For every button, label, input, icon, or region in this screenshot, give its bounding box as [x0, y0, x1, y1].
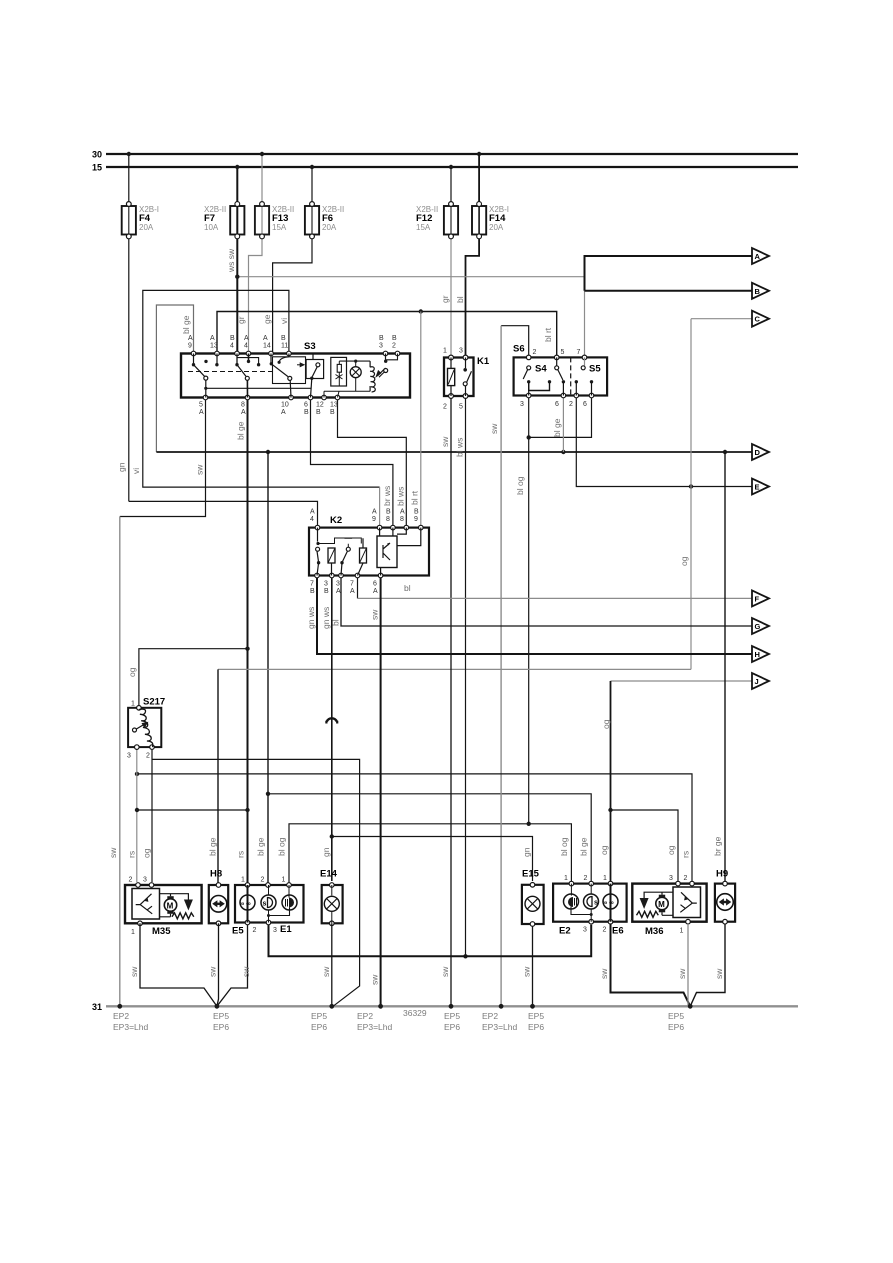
- wire S3-13B to K2-A8: [338, 398, 407, 528]
- svg-text:K2: K2: [330, 515, 342, 526]
- svg-text:2: 2: [569, 401, 573, 408]
- svg-text:31: 31: [92, 1002, 102, 1012]
- svg-text:6: 6: [555, 401, 559, 408]
- junction bl rt / K2-B9: [419, 309, 423, 313]
- wire M35-1 sw to ground funnel: [140, 923, 217, 1006]
- svg-text:2: 2: [443, 404, 447, 411]
- svg-text:rs: rs: [236, 851, 246, 858]
- svg-text:B: B: [414, 509, 419, 516]
- svg-text:A: A: [373, 588, 378, 595]
- svg-text:EP5: EP5: [444, 1011, 460, 1021]
- E2 pin 2: [589, 881, 594, 886]
- svg-text:S4: S4: [535, 364, 547, 375]
- wire gn F4 to K2-A4: [129, 501, 318, 527]
- S3 switch unit 3: [270, 354, 292, 398]
- E6 pin 1: [608, 881, 613, 886]
- arrow connector A: [752, 248, 769, 264]
- svg-text:E1: E1: [280, 924, 292, 935]
- svg-text:E14: E14: [320, 869, 338, 880]
- S3 switch unit 3 sub-box: [273, 357, 306, 384]
- arrow connector E: [752, 479, 769, 495]
- fuse F14: [466, 152, 510, 358]
- svg-text:5: 5: [561, 349, 565, 356]
- junction bus31 E15: [530, 1004, 535, 1009]
- svg-text:15: 15: [92, 163, 102, 173]
- wire S4 pin6 bl ge to D line (gray): [562, 396, 564, 453]
- K2 coil 2: [360, 548, 367, 563]
- wire bl ge branch to E2 pin2: [268, 794, 591, 881]
- svg-text:A: A: [188, 335, 193, 342]
- svg-text:sw: sw: [208, 966, 218, 977]
- wire bl rt drop to K2-B9 (gray): [420, 312, 422, 528]
- svg-text:G: G: [755, 622, 761, 631]
- svg-text:30: 30: [92, 150, 102, 160]
- S4 switch 2: [556, 357, 558, 365]
- svg-text:EP5: EP5: [528, 1011, 544, 1021]
- H8 pin top: [216, 883, 221, 888]
- svg-text:bl: bl: [331, 619, 341, 626]
- wire H9 sw to ground funnel: [690, 924, 725, 1006]
- arrow connector D: [752, 444, 769, 460]
- svg-text:bl og: bl og: [277, 837, 287, 856]
- svg-text:gr: gr: [236, 316, 246, 324]
- K2 pin B3: [330, 573, 335, 578]
- wire bl og column from S4-3/S5-6: [528, 398, 530, 824]
- svg-text:B: B: [755, 287, 761, 296]
- svg-text:bl ws: bl ws: [396, 487, 406, 506]
- S3 coupling arrow to hazard unit: [297, 364, 300, 366]
- component M36 wiper motor right: [632, 875, 706, 937]
- svg-text:K1: K1: [477, 356, 490, 367]
- component H8 washer pump: [209, 869, 228, 926]
- svg-text:sw: sw: [440, 436, 450, 447]
- S6 pin 2: [526, 355, 531, 360]
- svg-text:gr: gr: [440, 295, 450, 303]
- wire K2-B7 gn ws to arrow H: [317, 576, 753, 655]
- wire rs S217 pin3 to M35 pin2 (gray): [136, 749, 138, 883]
- svg-text:sw: sw: [599, 968, 609, 979]
- svg-text:B: B: [304, 409, 309, 416]
- wire og column C / E / H8 (gray): [690, 319, 692, 670]
- svg-text:rs: rs: [681, 851, 691, 858]
- svg-text:og: og: [601, 719, 611, 729]
- wire ws sw F7 to S5 pin7 (gray): [237, 276, 584, 278]
- node 31 label: [92, 1002, 102, 1012]
- svg-text:15A: 15A: [416, 223, 431, 232]
- svg-text:og: og: [599, 845, 609, 855]
- arrow connector J: [752, 673, 769, 689]
- S3 pin 5A: [203, 395, 208, 400]
- svg-text:sw: sw: [489, 423, 499, 434]
- S3 pin B4: [235, 351, 240, 356]
- svg-text:9: 9: [188, 343, 192, 350]
- K1 pin 3: [463, 355, 468, 360]
- svg-text:B: B: [230, 335, 235, 342]
- svg-text:bl rt: bl rt: [410, 490, 420, 505]
- wire K2-B3 gn to E14: [331, 576, 333, 882]
- ground EP5/EP6 label right: [668, 1011, 684, 1032]
- M36 electronic module with transistor: [673, 887, 701, 918]
- M36 heater resistor: [637, 911, 659, 917]
- svg-text:og: og: [666, 845, 676, 855]
- svg-text:A: A: [310, 509, 315, 516]
- S3 hazard sub-box: [306, 354, 324, 398]
- junction gn / E15 branch: [330, 834, 334, 838]
- arrow connector G: [752, 618, 769, 634]
- E6 lamp glyph: [603, 894, 618, 909]
- M36 pin 1: [686, 919, 691, 924]
- svg-text:ws sw: ws sw: [226, 248, 236, 273]
- ground EP2/EP3 label mid: [357, 1011, 392, 1032]
- ground EP5/EP6 label K1: [444, 1011, 460, 1032]
- svg-text:A: A: [281, 409, 286, 416]
- svg-text:S3: S3: [304, 341, 316, 352]
- junction bl og S4-3/S5-6: [527, 435, 531, 439]
- junction ws sw at F7: [235, 275, 239, 279]
- svg-text:EP3=Lhd: EP3=Lhd: [357, 1022, 392, 1032]
- svg-text:A: A: [755, 252, 761, 261]
- M36 feed wires: [644, 892, 673, 915]
- component H9 washer pump right: [715, 869, 735, 925]
- svg-text:∞ ∞: ∞ ∞: [603, 900, 614, 907]
- svg-text:bl og: bl og: [559, 837, 569, 856]
- K1 pin 1: [449, 355, 454, 360]
- svg-text:8: 8: [386, 516, 390, 523]
- E6 pin 2 bottom: [608, 919, 613, 924]
- wire bl ge loop S3-A9 to arrow D: [156, 305, 193, 452]
- svg-text:3: 3: [127, 753, 131, 760]
- wire S6 pin2 ground sw to bus31 (gray): [501, 326, 529, 358]
- svg-text:EP5: EP5: [311, 1011, 327, 1021]
- E2 lamp glyph 2: [584, 894, 599, 909]
- M35 heater resistor: [172, 913, 194, 919]
- wire labels rotated: [108, 248, 724, 985]
- svg-text:EP2: EP2: [482, 1011, 498, 1021]
- svg-text:2: 2: [261, 877, 265, 884]
- K2 pin B9: [419, 525, 424, 530]
- svg-text:9: 9: [414, 516, 418, 523]
- svg-text:sw: sw: [321, 966, 331, 977]
- E1 lamp glyph 2: [282, 895, 297, 910]
- K2 coil 1: [328, 548, 335, 563]
- svg-text:s: s: [263, 901, 267, 908]
- wire to arrow B: [585, 290, 754, 292]
- svg-text:sw: sw: [195, 464, 205, 475]
- svg-text:bl ge: bl ge: [552, 418, 562, 437]
- M36 pin 3: [676, 881, 681, 886]
- wire og S217 pin1 feed: [139, 649, 248, 707]
- svg-text:ge: ge: [262, 314, 272, 324]
- E1 link to pin 3: [269, 908, 290, 916]
- svg-text:bl og: bl og: [515, 476, 525, 495]
- component E5 E1 lamp unit: [232, 877, 304, 937]
- svg-text:EP5: EP5: [668, 1011, 684, 1021]
- E14 pin top: [330, 883, 335, 888]
- svg-text:8: 8: [241, 402, 245, 409]
- svg-text:A: A: [350, 588, 355, 595]
- S3 ballast coil: [370, 361, 376, 392]
- wire H8 sw to ground funnel: [217, 923, 219, 1006]
- fuse F6: [273, 165, 345, 354]
- S217 winding: [139, 709, 153, 747]
- junction bl ws / E1-E2: [463, 954, 467, 958]
- svg-text:gn ws: gn ws: [321, 607, 331, 629]
- wire S3-6B to K2-B8: [311, 398, 393, 528]
- wire bl ge drop D to E5 pin2: [267, 452, 269, 883]
- svg-text:og: og: [127, 667, 137, 677]
- S4 pin 3: [526, 393, 531, 398]
- junction rs at S217-3 column: [135, 772, 139, 776]
- svg-text:9: 9: [372, 516, 376, 523]
- M35 pin 1: [138, 921, 143, 926]
- K2 pin A7: [355, 573, 360, 578]
- E2 lamp glyph 1: [564, 894, 579, 909]
- svg-text:2: 2: [603, 927, 607, 934]
- M35 feed wires: [160, 894, 189, 917]
- svg-text:S6: S6: [513, 344, 525, 355]
- K2 internal bus: [318, 538, 361, 544]
- svg-text:F: F: [755, 594, 760, 603]
- svg-text:4: 4: [310, 516, 314, 523]
- svg-text:sw: sw: [714, 968, 724, 979]
- component E15 lamp: [522, 869, 544, 927]
- svg-text:gn: gn: [321, 847, 331, 857]
- svg-text:EP5: EP5: [213, 1011, 229, 1021]
- S3 pin B2: [395, 351, 400, 356]
- S3 pin labels top: [188, 335, 397, 350]
- K1 coil: [448, 368, 455, 385]
- svg-text:gn: gn: [117, 462, 127, 472]
- arrow connector H: [752, 646, 769, 662]
- E1 pin 3 bottom: [266, 920, 271, 925]
- svg-text:S5: S5: [589, 364, 601, 375]
- S4 switch 1: [527, 366, 531, 370]
- S5 pin 6: [589, 393, 594, 398]
- node 30 label: [92, 150, 102, 160]
- svg-text:E: E: [755, 483, 760, 492]
- svg-text:sw: sw: [440, 966, 450, 977]
- junction D / H9: [723, 450, 727, 454]
- S3 right switch B3 B2: [379, 354, 398, 378]
- svg-text:B: B: [379, 335, 384, 342]
- component E14 glovebox lamp: [320, 869, 343, 926]
- svg-text:vi: vi: [279, 318, 289, 324]
- wire br ge H9 from D junction: [724, 452, 726, 881]
- svg-text:sw: sw: [108, 847, 118, 858]
- fuse F12: [416, 165, 458, 358]
- svg-text:3: 3: [459, 348, 463, 355]
- wire rs branch S217-3 to M36 pin2: [137, 774, 692, 881]
- svg-text:20A: 20A: [322, 223, 337, 232]
- wire E1 pin3 to E2 pin3: [269, 925, 592, 957]
- svg-text:bl: bl: [455, 296, 465, 303]
- S3 pin A4: [246, 351, 251, 356]
- S3 pin B11: [287, 351, 292, 356]
- ground EP5/EP6 label E14: [311, 1011, 327, 1032]
- svg-text:A: A: [263, 335, 268, 342]
- svg-text:S217: S217: [143, 697, 165, 708]
- svg-text:EP3=Lhd: EP3=Lhd: [113, 1022, 148, 1032]
- wire og J column to E6 pin1: [610, 681, 612, 881]
- K2 pin A6: [378, 573, 383, 578]
- svg-text:13: 13: [210, 343, 218, 350]
- K2 pin A8: [404, 525, 409, 530]
- svg-text:3: 3: [336, 581, 340, 588]
- wire bl rt S3-A13 to S4 pin5: [217, 312, 557, 358]
- svg-text:10: 10: [281, 402, 289, 409]
- S3 pin 8A: [245, 395, 250, 400]
- svg-text:1: 1: [282, 877, 286, 884]
- svg-text:gn ws: gn ws: [306, 607, 316, 629]
- fuse F13: [249, 152, 295, 354]
- wire K2-A6 sw to bus31: [380, 576, 382, 1007]
- S3 internal coupling dashed: [188, 371, 272, 373]
- S4 pin 5: [554, 355, 559, 360]
- svg-text:sw: sw: [129, 966, 139, 977]
- svg-text:20A: 20A: [489, 223, 504, 232]
- S217 pin 2: [150, 745, 155, 750]
- svg-text:EP6: EP6: [528, 1022, 544, 1032]
- bus 31 (ground): [106, 1005, 798, 1007]
- svg-text:vi: vi: [131, 468, 141, 474]
- component E2 E6 lamp unit: [553, 875, 627, 937]
- svg-text:2: 2: [684, 875, 688, 882]
- svg-text:5: 5: [459, 404, 463, 411]
- S5 switch: [584, 357, 586, 365]
- M35 electronic module with transistor: [132, 889, 160, 920]
- svg-text:1: 1: [131, 701, 135, 708]
- svg-text:og: og: [142, 848, 152, 858]
- ground EP2/EP3 label S6: [482, 1011, 517, 1032]
- junction bus31 EP2 left: [117, 1004, 122, 1009]
- svg-text:12: 12: [316, 402, 324, 409]
- svg-text:3: 3: [324, 581, 328, 588]
- component K1 relay: [443, 348, 490, 411]
- svg-text:H: H: [755, 650, 760, 659]
- junction bl ge branch to E2-2: [266, 792, 270, 796]
- M36 arrow onto resistor: [640, 898, 649, 909]
- S3 indicator lamp: [350, 367, 361, 378]
- E15 pin bottom: [530, 922, 535, 927]
- junction bus31 K1-2: [449, 1004, 454, 1009]
- svg-text:1: 1: [131, 929, 135, 936]
- wire K1 pin2 sw to bus31: [450, 396, 452, 1006]
- wire rs cross branch y810: [137, 809, 248, 811]
- svg-text:bl ge: bl ge: [579, 837, 589, 856]
- arrow connector C: [752, 311, 769, 327]
- wire E14 sw to bus31: [331, 923, 333, 1006]
- component S4 S5 S6 switch box: [513, 344, 607, 409]
- S3 pin 6B: [308, 395, 313, 400]
- S3 internal bottom rail to pins 12B 13B: [324, 391, 370, 397]
- svg-text:1: 1: [680, 928, 684, 935]
- svg-text:EP6: EP6: [668, 1022, 684, 1032]
- component K2 wiper relay: [309, 509, 429, 596]
- S217 pin 3: [135, 745, 140, 750]
- M35 pin 3: [149, 883, 154, 888]
- svg-text:7: 7: [350, 581, 354, 588]
- wire vi S3-B11 to K2-A9: [143, 290, 380, 487]
- svg-text:4: 4: [244, 343, 248, 350]
- junction bus31 A6: [378, 1004, 383, 1009]
- svg-text:bl ge: bl ge: [208, 837, 218, 856]
- svg-text:M36: M36: [645, 926, 663, 937]
- svg-text:A: A: [199, 409, 204, 416]
- S3 relay sub-box: [331, 357, 347, 386]
- H9 pin top: [723, 881, 728, 886]
- K2 switch 1: [317, 528, 319, 542]
- svg-text:EP3=Lhd: EP3=Lhd: [482, 1022, 517, 1032]
- S5 pin 2: [574, 393, 579, 398]
- svg-text:br ws: br ws: [382, 486, 392, 506]
- wire to arrow A: [585, 256, 754, 291]
- S4/S5 divider dashed: [570, 357, 572, 395]
- svg-text:3: 3: [669, 875, 673, 882]
- svg-text:gn: gn: [522, 847, 532, 857]
- svg-text:rs: rs: [127, 851, 137, 858]
- K2 pin B8: [391, 525, 396, 530]
- svg-text:J: J: [755, 677, 759, 686]
- junction bus31 EP5 right: [688, 1004, 693, 1009]
- svg-text:36329: 36329: [403, 1008, 427, 1018]
- E1 lamp glyph 1: [261, 895, 276, 910]
- svg-text:1: 1: [241, 877, 245, 884]
- S3 pin 12B: [322, 395, 327, 400]
- junction bus31 EP5 E14: [329, 1004, 334, 1009]
- S3 internal top rail: [339, 360, 370, 362]
- M35 arrow onto resistor: [184, 900, 193, 911]
- svg-text:A: A: [372, 509, 377, 516]
- arrow connector F: [752, 590, 769, 606]
- svg-text:H8: H8: [210, 869, 222, 880]
- svg-text:2: 2: [392, 343, 396, 350]
- wire E6-2 sw to ground funnel: [611, 924, 691, 1006]
- svg-text:2: 2: [533, 349, 537, 356]
- svg-text:B: B: [330, 409, 335, 416]
- svg-text:6: 6: [373, 581, 377, 588]
- svg-text:bl ws: bl ws: [455, 438, 465, 457]
- drawing number 36329: [403, 1008, 427, 1018]
- E5 pin 1: [245, 883, 250, 888]
- S3 adjust arrow: [378, 368, 386, 376]
- svg-text:B: B: [281, 335, 286, 342]
- svg-text:A: A: [336, 588, 341, 595]
- svg-text:5: 5: [199, 402, 203, 409]
- svg-text:4: 4: [230, 343, 234, 350]
- E1 pin 1: [287, 883, 292, 888]
- component S217 rheostat: [127, 697, 165, 760]
- E5 pin 2 bottom: [245, 920, 250, 925]
- S3 switch unit 1: [192, 354, 219, 398]
- arrow connector B: [752, 283, 769, 299]
- K1 pin 5: [463, 394, 468, 399]
- M35 motor: [164, 899, 176, 911]
- E14 pin bottom: [330, 921, 335, 926]
- svg-text:1: 1: [564, 875, 568, 882]
- svg-text:10A: 10A: [204, 223, 219, 232]
- E5 lamp glyph: [240, 895, 255, 910]
- svg-text:M: M: [167, 902, 174, 911]
- svg-text:EP6: EP6: [213, 1022, 229, 1032]
- svg-text:3: 3: [143, 877, 147, 884]
- svg-text:M35: M35: [152, 926, 171, 937]
- wire K2-A3 bl to arrow G: [341, 576, 753, 627]
- svg-text:1: 1: [603, 875, 607, 882]
- wire E15 sw to bus31: [532, 926, 534, 1006]
- wire S5 pin2 to arrow E: [576, 396, 753, 487]
- wire to arrow C (gray): [691, 318, 753, 320]
- K2 pin A4: [315, 525, 320, 530]
